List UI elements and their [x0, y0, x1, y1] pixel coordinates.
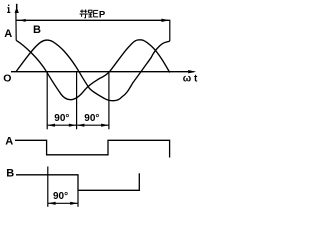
svg-text:A: A [5, 135, 13, 147]
square wave A [15, 140, 170, 157]
glyph jie (节) [80, 10, 88, 19]
extension line bottom right [77, 190, 79, 207]
extension line right [169, 20, 171, 41]
svg-text:P: P [99, 9, 106, 20]
dim 90 deg first span [47, 124, 76, 126]
x-axis [11, 71, 194, 73]
glyph ju (距) [88, 10, 98, 17]
svg-text:90°: 90° [54, 113, 69, 124]
svg-text:90°: 90° [84, 113, 99, 124]
drop line 3 [108, 72, 110, 130]
svg-text:A: A [4, 28, 12, 40]
x-axis arrowhead [188, 70, 196, 73]
dim 90 deg bottom [48, 202, 78, 204]
svg-text:O: O [3, 73, 11, 85]
label i [7, 5, 10, 13]
dim arrow right [161, 19, 169, 22]
svg-text:B: B [33, 24, 41, 36]
dim 90 deg second span [77, 124, 109, 126]
svg-text:B: B [6, 168, 14, 180]
y-axis [15, 13, 17, 41]
svg-text:90°: 90° [53, 191, 68, 202]
extension line bottom left [47, 167, 49, 207]
dimension line pitch P [17, 19, 170, 21]
sine wave A [16, 40, 169, 100]
square wave B [16, 173, 139, 190]
svg-text:ω t: ω t [183, 73, 198, 84]
y-axis arrowhead [15, 7, 19, 13]
drop line 2 [76, 72, 78, 129]
dim arrow left [19, 19, 25, 22]
sine wave B [16, 40, 170, 101]
drop line 1 [46, 72, 48, 129]
